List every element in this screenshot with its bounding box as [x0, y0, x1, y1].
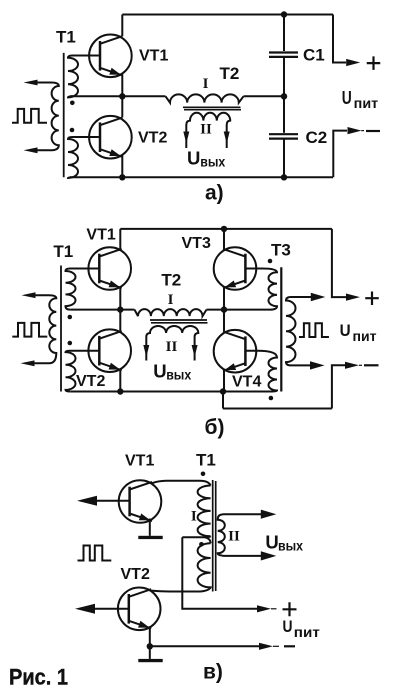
- T2b core line 2: [151, 322, 208, 324]
- T3 base winding lower (VT4): [245, 351, 277, 392]
- svg-text:U: U: [153, 361, 166, 382]
- T2b secondary winding II: [146, 326, 198, 361]
- minus sign a: [366, 130, 380, 132]
- polarity dot T1 upper: [70, 101, 75, 106]
- T3 drive winding (right): [286, 297, 311, 365]
- svg-text:вых: вых: [166, 368, 191, 383]
- wire VT1v base lead: [94, 500, 129, 502]
- wire VT4 collector: [223, 310, 225, 331]
- svg-text:пит: пит: [294, 625, 320, 640]
- svg-text:T3: T3: [271, 241, 291, 260]
- transistor VT3: [214, 247, 257, 290]
- svg-text:T1: T1: [56, 28, 76, 47]
- svg-text:I: I: [203, 76, 209, 92]
- T2 secondary winding II: [186, 113, 230, 148]
- wire VT1v collector to T1 top: [152, 481, 211, 486]
- transistor VT4: [214, 330, 257, 373]
- wire VT1b emitter: [119, 288, 121, 310]
- ground symbol VT2 v: [138, 659, 162, 662]
- svg-text:VT2: VT2: [121, 566, 150, 583]
- svg-text:пит: пит: [354, 95, 379, 111]
- wire VT1 emitter to mid node: [121, 74, 123, 96]
- transformer T3 core: [280, 267, 282, 391]
- wire bottom rail a: [70, 176, 333, 178]
- arrow U_vyh b right: [192, 345, 198, 357]
- svg-text:а): а): [205, 182, 224, 205]
- T1b primary winding (left): [34, 295, 57, 363]
- svg-text:VT1: VT1: [139, 47, 168, 64]
- polarity dot T3 upper: [268, 259, 273, 264]
- arrow VT1v drive input: [77, 496, 97, 506]
- junction VT3e-VT4c: [221, 306, 227, 312]
- arrow T1b input bottom: [21, 360, 35, 366]
- polarity dot T3 lower: [269, 396, 274, 401]
- T2b core line 1: [150, 319, 207, 321]
- polarity dot T1v top: [201, 472, 206, 477]
- T3 base winding upper (VT3): [245, 269, 277, 310]
- svg-text:C1: C1: [303, 46, 325, 65]
- arrow U_vyh v bottom: [261, 551, 277, 560]
- svg-text:вых: вых: [278, 538, 303, 553]
- plus sign a: [367, 56, 381, 70]
- T1v core line 1: [212, 480, 214, 592]
- T1v core line 2: [215, 481, 217, 591]
- wire - rail v: [150, 645, 259, 647]
- svg-text:VT1: VT1: [86, 227, 115, 244]
- arrow T3 drive top: [311, 293, 326, 301]
- plus sign b: [365, 291, 379, 305]
- wire C1 bottom / C2 top lead: [283, 57, 285, 133]
- wire VT2 emitter to bottom rail: [121, 155, 123, 177]
- wire VT3 emitter: [223, 288, 225, 310]
- ground symbol VT1 v: [138, 536, 162, 539]
- transistor VT1 (b): [88, 247, 131, 290]
- junction VT2 emitter: [117, 388, 123, 394]
- svg-text:VT2: VT2: [138, 130, 167, 147]
- transistor VT1 (a): [89, 35, 132, 78]
- polarity dot T1b upper: [68, 315, 73, 320]
- svg-text:C2: C2: [306, 128, 328, 147]
- svg-text:II: II: [200, 122, 212, 138]
- arrow U_vyh v top: [261, 510, 277, 519]
- T1v secondary winding II: [218, 515, 225, 556]
- transformer T1 core: [63, 53, 65, 177]
- arrow - v: [259, 643, 273, 650]
- arrow U_vyh right: [224, 132, 230, 144]
- arrow - a: [348, 127, 362, 134]
- wire VT1 collector: [121, 15, 123, 37]
- wire mid rail left b: [70, 309, 134, 311]
- capacitor C1: [269, 51, 298, 53]
- junction C1-C2 mid: [281, 93, 287, 99]
- transistor VT2 (b): [88, 329, 131, 372]
- arrow U_vyh left: [183, 132, 189, 144]
- svg-text:T2: T2: [220, 64, 240, 83]
- arrow T3 drive bottom: [310, 361, 325, 369]
- wire - terminal b: [332, 365, 345, 408]
- svg-text:пит: пит: [353, 328, 377, 344]
- svg-text:U: U: [340, 321, 351, 340]
- svg-text:вых: вых: [200, 155, 225, 170]
- wire C1 top lead: [283, 15, 285, 52]
- wire mid rail left segment: [70, 95, 166, 97]
- wire VT2b collector: [119, 310, 121, 331]
- arrow + v: [257, 605, 271, 612]
- T1 secondary upper (VT1 base winding): [68, 56, 99, 98]
- arrow T1b input top: [22, 292, 36, 298]
- square-wave drive symbol v: [78, 546, 112, 561]
- minus sign b: [364, 364, 379, 366]
- T1b secondary lower (VT2 base): [66, 351, 99, 392]
- junction VT1e/VT2c/T2: [119, 93, 125, 99]
- wire U_vyh v bottom lead: [223, 555, 264, 557]
- T1v center tap: [182, 535, 210, 538]
- T2b primary winding: [135, 309, 207, 316]
- T2 core line 2: [184, 109, 241, 111]
- capacitor C2: [269, 133, 298, 135]
- wire VT2v collector to T1 bottom: [151, 590, 200, 593]
- wire top rail b: [120, 228, 332, 230]
- arrow + b: [346, 294, 360, 301]
- wire VT2v emitter to ground: [149, 626, 151, 659]
- wire bottom tap down: [222, 392, 224, 409]
- T2 core line 1: [183, 106, 241, 108]
- arrow - b: [345, 362, 359, 369]
- junction C1 / top rail: [281, 11, 287, 17]
- transistor VT1 (v): [119, 480, 162, 523]
- square-wave drive symbol a: [12, 109, 47, 123]
- transformer T1b core: [60, 266, 62, 392]
- svg-text:U: U: [187, 147, 200, 168]
- arrow VT2v drive input: [75, 604, 95, 614]
- wire - terminal a: [333, 131, 347, 178]
- svg-text:II: II: [166, 339, 178, 355]
- svg-text:VT1: VT1: [125, 453, 154, 470]
- junction VT3 collector / top rail: [221, 226, 227, 232]
- svg-text:в): в): [203, 661, 223, 684]
- svg-text:VT3: VT3: [182, 235, 211, 252]
- svg-text:Рис. 1: Рис. 1: [9, 665, 68, 690]
- transistor VT2 (a): [89, 116, 132, 159]
- T1 secondary lower (VT2 base winding): [68, 137, 99, 178]
- polarity dot T1 lower: [70, 128, 75, 133]
- wire + terminal a: [333, 15, 346, 63]
- T1v tap to lower section: [205, 537, 211, 543]
- svg-text:II: II: [228, 529, 240, 545]
- wire C2 bottom lead: [283, 139, 285, 178]
- arrow T1 input top: [24, 80, 38, 86]
- svg-text:T1: T1: [196, 450, 216, 469]
- svg-text:U: U: [342, 87, 352, 108]
- polarity dot T1v mid: [199, 542, 204, 547]
- wire U_vyh v top lead: [223, 513, 264, 515]
- wire lower rail to minus: [223, 408, 332, 410]
- T1v primary upper section: [198, 486, 211, 537]
- svg-text:U: U: [265, 532, 278, 553]
- svg-text:б): б): [205, 416, 225, 439]
- svg-text:VT4: VT4: [232, 374, 261, 391]
- junction C2 / bottom rail: [281, 174, 287, 180]
- junction VT1e-VT2c: [117, 306, 123, 312]
- svg-text:T2: T2: [161, 271, 181, 290]
- square-wave drive symbol b right: [299, 323, 329, 337]
- arrow + a: [346, 59, 360, 66]
- wire VT4 emitter: [223, 370, 225, 392]
- svg-text:T1: T1: [53, 242, 73, 261]
- svg-text:I: I: [191, 509, 197, 525]
- polarity dot T1b lower: [68, 341, 73, 346]
- wire bottom rail b: [70, 391, 270, 393]
- junction VT2 emitter / bottom rail: [119, 174, 125, 180]
- wire mid node to VT2 collector: [121, 96, 123, 117]
- wire T2 primary to C node: [244, 95, 285, 97]
- wire VT2b emitter: [119, 370, 121, 392]
- T1 primary winding (left side): [37, 83, 59, 151]
- wire VT1v emitter to ground: [149, 519, 151, 536]
- transistor VT2 (v): [118, 588, 161, 631]
- junction VT4 emitter: [220, 388, 226, 394]
- arrow U_vyh b left: [143, 345, 149, 357]
- wire center tap to + terminal: [182, 537, 258, 609]
- svg-text:VT2: VT2: [76, 373, 105, 390]
- wire + terminal b: [332, 229, 346, 297]
- square-wave drive symbol b left: [12, 323, 47, 337]
- wire VT3 collector: [223, 229, 225, 249]
- minus sign v: [284, 645, 295, 647]
- arrow T1 input bottom: [24, 147, 38, 153]
- svg-text:I: I: [168, 292, 174, 308]
- junction VT2v emitter / minus rail: [147, 643, 153, 649]
- plus sign v: [283, 602, 297, 616]
- T2 primary winding: [166, 94, 244, 102]
- T1b secondary upper (VT1 base): [66, 269, 99, 310]
- wire mid rail right b: [207, 309, 271, 311]
- wire VT2v base lead: [92, 608, 129, 610]
- T1v primary lower section: [198, 543, 211, 591]
- wire top rail a: [122, 14, 333, 16]
- svg-text:U: U: [283, 617, 293, 636]
- wire VT1b collector: [119, 229, 121, 249]
